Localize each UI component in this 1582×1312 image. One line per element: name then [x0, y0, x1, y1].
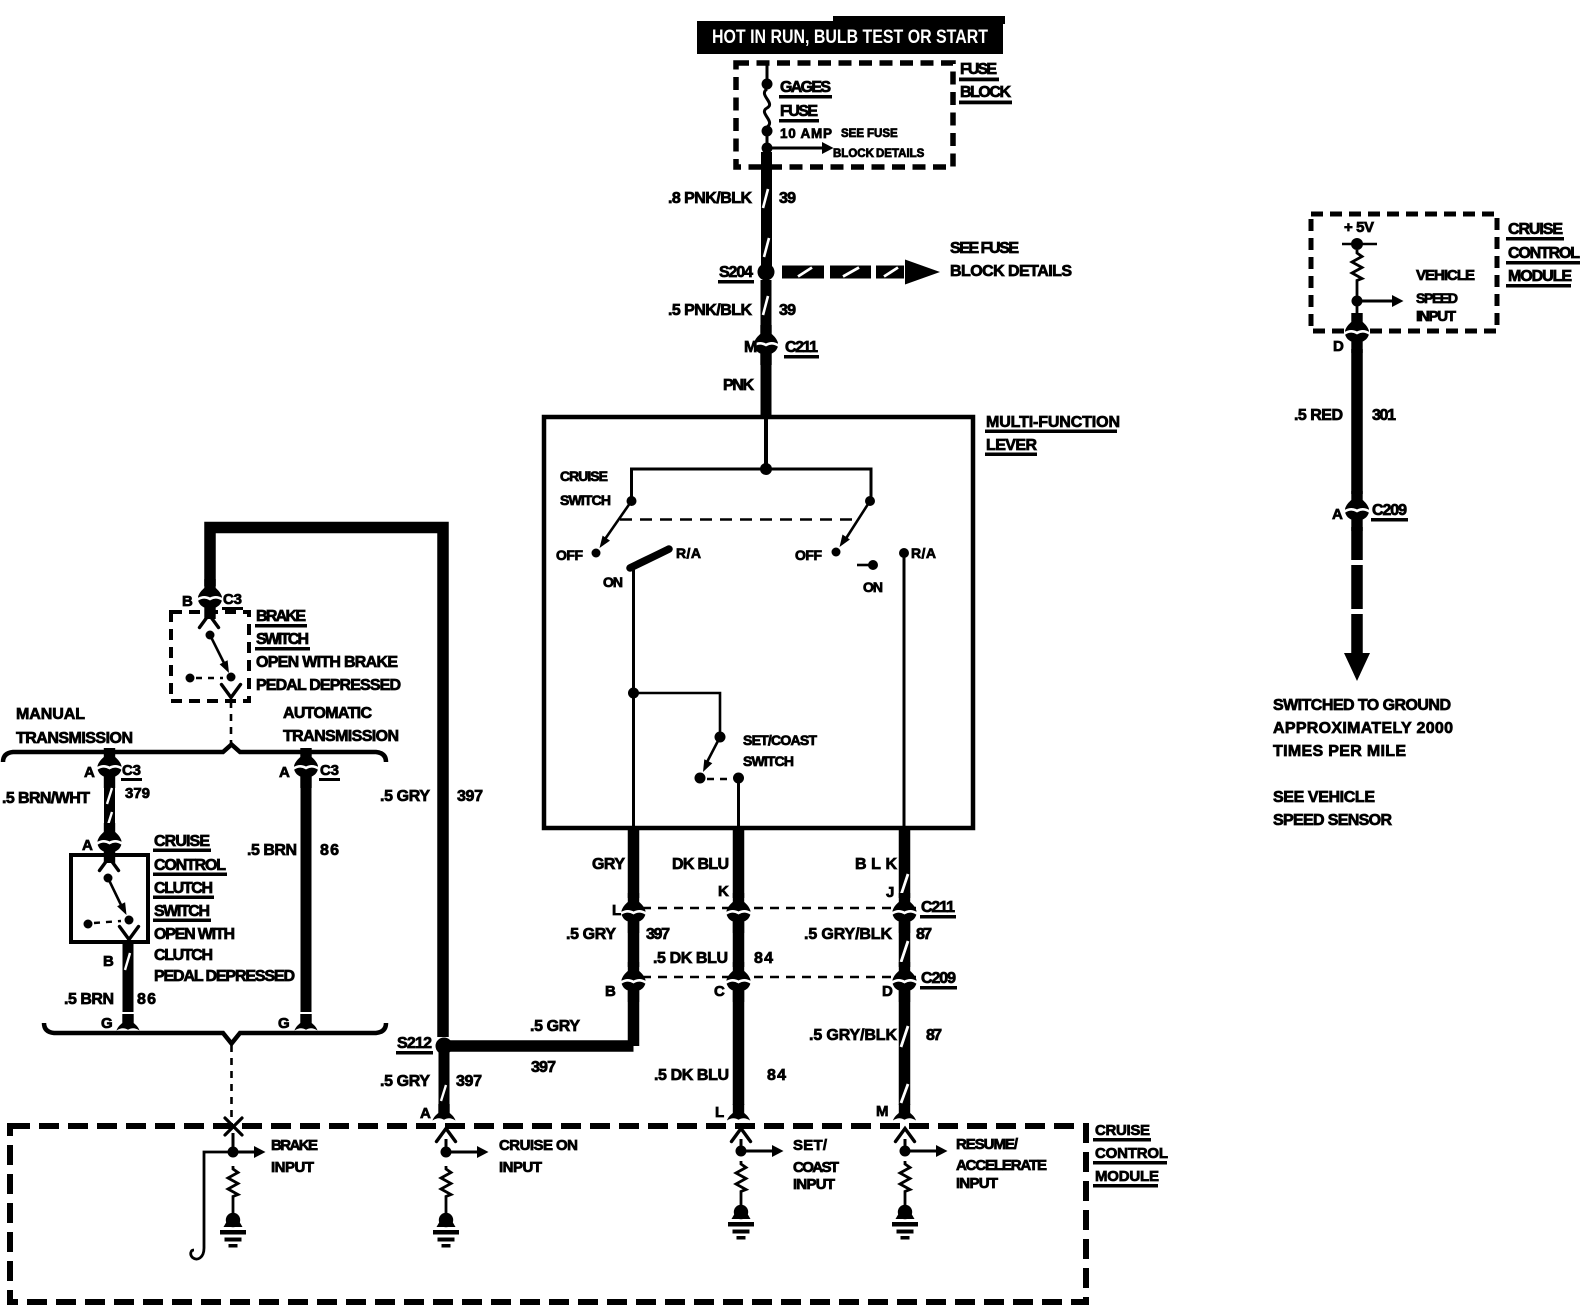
- arrow: vehicle speed input: [1357, 300, 1392, 303]
- wire: feed bus to both switch poles: [632, 469, 872, 497]
- svg-text:INPUT: INPUT: [1416, 308, 1456, 325]
- cruise on input: entry arrow: [437, 1129, 456, 1142]
- node: see-fuse-block tap: [762, 143, 773, 154]
- wire: junction to module edge: [1356, 301, 1359, 318]
- node: right OFF contact: [832, 548, 841, 557]
- label: SET/COAST SWITCH: [743, 732, 817, 769]
- clutch switch blade: [108, 878, 122, 907]
- wire: R/A contact to box bottom (BLK): [903, 553, 906, 827]
- svg-text:.5 BRN: .5 BRN: [247, 842, 297, 859]
- node: left OFF contact: [592, 549, 601, 558]
- entry connector module pin A: [433, 1104, 456, 1121]
- node: vehicle speed input junction: [1352, 296, 1363, 307]
- svg-text:CONTROL: CONTROL: [154, 857, 226, 874]
- svg-text:FUSE: FUSE: [780, 103, 818, 120]
- svg-text:R/A: R/A: [911, 545, 936, 561]
- connector C3 pin A (manual): [97, 748, 122, 788]
- svg-text:39: 39: [779, 190, 796, 207]
- clutch switch: bottom terminal arrow: [120, 927, 139, 940]
- wire: GRY lever to C211-L: [628, 827, 640, 898]
- svg-text:GAGES: GAGES: [780, 79, 831, 96]
- svg-text:PEDAL DEPRESSED: PEDAL DEPRESSED: [154, 968, 295, 985]
- resistor: cruise on: [441, 1166, 451, 1199]
- node: set/coast left contact: [695, 773, 706, 784]
- wire: .5 GRY/BLK 87 C211 to C209: [899, 922, 911, 967]
- svg-text:MANUAL: MANUAL: [16, 706, 85, 723]
- svg-text:MULTI-FUNCTION: MULTI-FUNCTION: [986, 414, 1120, 431]
- svg-text:G: G: [278, 1015, 290, 1032]
- wire: dashed drop brace to module brake input: [230, 1045, 233, 1117]
- label: CRUISE CONTROL CLUTCH SWITCH notes: [153, 833, 295, 985]
- ground: brake input: [220, 1213, 246, 1248]
- wire: left ON contact down: [632, 566, 635, 693]
- label: CRUISE CONTROL MODULE (top right): [1506, 221, 1580, 288]
- svg-text:SPEED: SPEED: [1416, 290, 1458, 306]
- wire: brake input hook branch: [191, 1152, 233, 1259]
- node: right R/A contact: [899, 548, 909, 558]
- svg-text:C: C: [714, 983, 725, 1000]
- connector C3 pin A (automatic): [294, 748, 319, 788]
- brace: transmission split (opens down): [3, 745, 386, 763]
- wire: .5 DK BLU 84 C209-C to module L: [733, 991, 745, 1105]
- svg-text:.5 BRN/WHT: .5 BRN/WHT: [2, 790, 90, 807]
- svg-text:TIMES PER MILE: TIMES PER MILE: [1273, 743, 1406, 760]
- svg-text:INPUT: INPUT: [793, 1176, 835, 1193]
- cruise switch left pole pivot: [627, 496, 637, 506]
- power banner: HOT IN RUN, BULB TEST OR START: [697, 16, 1005, 54]
- wire: fuse to tap: [766, 131, 769, 148]
- svg-text:APPROXIMATELY 2000: APPROXIMATELY 2000: [1273, 720, 1453, 737]
- arrowhead: to speed sensor: [1344, 653, 1370, 681]
- svg-text:FUSE: FUSE: [867, 128, 898, 140]
- svg-text:SET/COAST: SET/COAST: [743, 732, 817, 748]
- node: cruise on junction: [441, 1147, 452, 1158]
- entry connector: automatic G to brace: [295, 1014, 318, 1031]
- brake switch lower contact: [227, 673, 236, 682]
- set/coast input: entry arrow: [732, 1129, 751, 1142]
- svg-text:.5 GRY/BLK: .5 GRY/BLK: [804, 926, 892, 943]
- svg-text:SWITCH: SWITCH: [256, 631, 309, 648]
- wire: .5 BRN 86 clutch switch to G: [123, 942, 134, 1012]
- svg-text:87: 87: [916, 926, 932, 943]
- svg-text:A: A: [1332, 506, 1343, 523]
- node: right ON contact with stub: [857, 564, 869, 567]
- svg-text:CRUISE: CRUISE: [1095, 1122, 1150, 1139]
- wire: .5 RED 301 to C209: [1351, 349, 1363, 494]
- svg-text:CONTROL: CONTROL: [1508, 245, 1580, 262]
- wire: dashed drop brake switch to brace: [230, 701, 233, 746]
- svg-text:CRUISE ON: CRUISE ON: [499, 1137, 578, 1154]
- ground: set/coast: [728, 1205, 754, 1240]
- wire: .5 BRN 86 automatic branch: [301, 780, 312, 1012]
- connector row C209 dashed gang line: [642, 976, 916, 978]
- resistor: speed input pull-up: [1352, 250, 1362, 283]
- svg-text:PNK: PNK: [723, 377, 754, 394]
- svg-text:CRUISE: CRUISE: [560, 468, 608, 484]
- svg-text:SEE FUSE: SEE FUSE: [950, 240, 1019, 257]
- svg-text:C211: C211: [921, 899, 955, 916]
- connector C209 pin B: [621, 962, 646, 1002]
- x termination at brake input entry: [225, 1118, 242, 1135]
- svg-text:SWITCHED TO GROUND: SWITCHED TO GROUND: [1273, 697, 1451, 714]
- svg-text:BRAKE: BRAKE: [256, 608, 306, 625]
- connector C211 pin J: [892, 893, 917, 933]
- svg-text:C211: C211: [785, 339, 818, 356]
- svg-text:C209: C209: [921, 970, 956, 987]
- cruise switch right pole pivot: [865, 496, 875, 506]
- wire: PNK C211 to multi-function lever: [761, 362, 772, 419]
- resistor: set/coast: [736, 1161, 746, 1194]
- svg-text:A: A: [84, 764, 95, 781]
- svg-text:CONTROL: CONTROL: [1095, 1145, 1168, 1162]
- svg-text:DETAILS: DETAILS: [876, 148, 925, 160]
- thick arc blade ON to R/A: [630, 549, 669, 568]
- svg-text:.5 GRY: .5 GRY: [380, 1073, 430, 1090]
- svg-text:C3: C3: [223, 591, 242, 608]
- svg-text:301: 301: [1372, 407, 1396, 424]
- svg-text:AUTOMATIC: AUTOMATIC: [283, 705, 372, 722]
- connector C209 pin A: [1345, 491, 1370, 531]
- svg-text:SPEED SENSOR: SPEED SENSOR: [1273, 812, 1392, 829]
- splice S204: [758, 264, 775, 281]
- svg-text:A: A: [279, 764, 290, 781]
- cruise control module dashed box (top right): [1311, 214, 1497, 331]
- svg-text:OFF: OFF: [795, 547, 822, 563]
- svg-text:SWITCH: SWITCH: [560, 492, 611, 508]
- wire: ON contact to lever box bottom (GRY): [632, 693, 635, 827]
- brake switch blade: [210, 635, 225, 665]
- connector C211 pin M: [754, 325, 779, 365]
- svg-text:MODULE: MODULE: [1508, 268, 1572, 285]
- svg-text:TRANSMISSION: TRANSMISSION: [16, 730, 133, 747]
- svg-text:INPUT: INPUT: [956, 1175, 998, 1192]
- node: cruise switch feed junction: [760, 463, 772, 475]
- svg-text:D: D: [1333, 338, 1344, 355]
- svg-text:397: 397: [457, 788, 483, 805]
- node: brake input junction: [228, 1147, 239, 1158]
- svg-text:.5 GRY: .5 GRY: [380, 788, 430, 805]
- svg-text:INPUT: INPUT: [271, 1159, 314, 1176]
- label: switched to ground note: [1273, 697, 1453, 829]
- svg-text:379: 379: [125, 785, 150, 802]
- clutch switch open contact: [84, 920, 93, 929]
- svg-text:OPEN WITH BRAKE: OPEN WITH BRAKE: [256, 654, 398, 671]
- node: set/coast pivot: [715, 732, 726, 743]
- svg-text:J: J: [886, 884, 894, 901]
- svg-text:M: M: [744, 339, 757, 356]
- svg-text:.5 GRY/BLK: .5 GRY/BLK: [809, 1027, 897, 1044]
- svg-text:SWITCH: SWITCH: [743, 753, 794, 769]
- arrow: cruise on input: [446, 1151, 477, 1154]
- svg-text:BLOCK: BLOCK: [960, 84, 1011, 101]
- arrow: set/coast input: [741, 1150, 772, 1153]
- svg-text:M: M: [876, 1103, 889, 1120]
- svg-text:C209: C209: [1372, 502, 1407, 519]
- svg-text:LEVER: LEVER: [986, 437, 1037, 454]
- svg-text:86: 86: [137, 991, 156, 1008]
- label: GAGES FUSE: [779, 79, 832, 123]
- svg-text:84: 84: [767, 1067, 786, 1084]
- svg-text:.5 GRY: .5 GRY: [530, 1018, 580, 1035]
- wire: pnk feed inside lever: [764, 419, 768, 469]
- brace: ground join (opens up): [44, 1023, 386, 1044]
- svg-text:SWITCH: SWITCH: [154, 903, 210, 920]
- wire: .5 BRN/WHT 379 to clutch switch: [104, 780, 115, 830]
- wire: set/coast contact to box bottom (DK BLU): [737, 778, 740, 827]
- fuse block dashed box: [736, 63, 953, 167]
- connector row C211 dashed gang line: [642, 907, 916, 909]
- svg-text:10 AMP: 10 AMP: [780, 126, 832, 141]
- svg-text:ON: ON: [863, 579, 883, 595]
- clutch switch pivot: [104, 874, 113, 883]
- connector C209 pin D: [892, 962, 917, 1002]
- arrow: see fuse block details (inside fuse box): [767, 147, 822, 150]
- svg-text:BLOCK: BLOCK: [833, 148, 875, 160]
- svg-text:K: K: [718, 883, 729, 900]
- brake input: wire to junction: [232, 1133, 235, 1152]
- svg-text:39: 39: [779, 302, 796, 319]
- wire: .5 GRY/BLK 87 C209-D to module M: [899, 991, 911, 1105]
- svg-text:.5 DK BLU: .5 DK BLU: [653, 950, 728, 967]
- label: 10 AMP SEE FUSE BLOCK DETAILS: [780, 126, 925, 160]
- dashed link to right contact: [707, 778, 731, 781]
- resistor: resume/accelerate: [900, 1161, 910, 1194]
- connector C211 pin L: [621, 893, 646, 933]
- label: MANUAL TRANSMISSION: [16, 706, 133, 747]
- svg-text:.5 BRN: .5 BRN: [64, 991, 114, 1008]
- cruise control module dashed box (bottom): [10, 1126, 1086, 1302]
- svg-text:RESUME/: RESUME/: [956, 1136, 1019, 1153]
- wire: .8 PNK/BLK 39 fuse to S204: [761, 152, 772, 266]
- node: set/coast right contact: [733, 773, 744, 784]
- svg-text:DK BLU: DK BLU: [672, 856, 729, 873]
- wire: .5 GRY 397 C211 to C209: [628, 922, 640, 967]
- svg-text:C3: C3: [122, 762, 141, 779]
- svg-text:C3: C3: [320, 762, 339, 779]
- dashed arrow: S204 to fuse block details: [782, 260, 940, 285]
- resistor: brake input pull-up: [228, 1166, 238, 1199]
- svg-text:ACCELERATE: ACCELERATE: [956, 1157, 1047, 1174]
- wire: .5 GRY C209-B down to S212 bend: [628, 991, 640, 1046]
- label: .8 PNK/BLK 39: [668, 190, 796, 207]
- connector C209 pin C: [726, 962, 751, 1002]
- left blade to OFF with arrowhead: [603, 501, 632, 542]
- svg-text:.5 PNK/BLK: .5 PNK/BLK: [668, 302, 752, 319]
- ganged linkage dashed line: [620, 518, 858, 521]
- svg-text:CRUISE: CRUISE: [1508, 221, 1563, 238]
- ground: resume/accelerate: [892, 1205, 918, 1240]
- label: .5 GRY 397 (top of long gray run): [380, 788, 483, 805]
- svg-text:SEE VEHICLE: SEE VEHICLE: [1273, 789, 1375, 806]
- wire: tap to set/coast switch: [634, 693, 721, 737]
- fuse block label: [959, 61, 1012, 104]
- wire: .5 GRY 397 S212 horizontal run to C209 leg: [449, 1040, 634, 1052]
- svg-text:G: G: [101, 1015, 113, 1032]
- node: resume junction: [900, 1146, 911, 1157]
- svg-text:B: B: [605, 983, 616, 1000]
- arrow: resume/accelerate input: [905, 1150, 936, 1153]
- svg-text:.5 GRY: .5 GRY: [566, 926, 616, 943]
- svg-text:397: 397: [531, 1059, 556, 1076]
- svg-text:VEHICLE: VEHICLE: [1416, 267, 1475, 284]
- clutch switch lower contact: [125, 916, 134, 925]
- resume/accelerate input: entry arrow: [896, 1129, 915, 1142]
- wire: feed into gages fuse: [766, 63, 769, 83]
- wire: .5 GRY 397 S212 down to module A: [439, 1052, 450, 1105]
- wire: .5 DK BLU 84 C211 to C209: [733, 922, 745, 967]
- svg-text:86: 86: [320, 842, 339, 859]
- label: CRUISE CONTROL MODULE (bottom right): [1093, 1122, 1168, 1188]
- splice S212: [436, 1038, 453, 1055]
- svg-text:84: 84: [754, 950, 773, 967]
- label: BRAKE SWITCH, notes: [255, 608, 401, 745]
- svg-text:COAST: COAST: [793, 1159, 839, 1176]
- svg-text:BRAKE: BRAKE: [271, 1137, 318, 1154]
- connector: module pin D: [1345, 313, 1370, 353]
- connector C211 pin K: [726, 893, 751, 933]
- label: C209: [920, 970, 957, 990]
- svg-text:INPUT: INPUT: [499, 1159, 542, 1176]
- svg-text:R/A: R/A: [676, 545, 701, 561]
- brake switch open contact: [186, 674, 195, 683]
- svg-text:.5 DK BLU: .5 DK BLU: [654, 1067, 729, 1084]
- svg-text:L: L: [612, 902, 621, 919]
- wire: DK BLU lever to C211-K: [733, 827, 745, 898]
- arrow: brake input: [233, 1151, 254, 1154]
- label: SEE FUSE BLOCK DETAILS: [950, 240, 1072, 280]
- wire: BLK lever to C211-J: [899, 827, 911, 898]
- node: +5V rail: [1342, 243, 1377, 245]
- connector: clutch switch pin A: [97, 823, 122, 863]
- svg-text:B: B: [103, 953, 114, 970]
- entry connector: manual G to brace: [117, 1014, 140, 1031]
- svg-text:A: A: [82, 837, 93, 854]
- svg-text:S212: S212: [397, 1035, 432, 1052]
- svg-text:D: D: [882, 983, 893, 1000]
- gages fuse element: [764, 89, 769, 127]
- wire: brake switch feed, top-left thick run: [210, 528, 443, 1038]
- label: CRUISE SWITCH: [560, 468, 611, 508]
- svg-text:CLUTCH: CLUTCH: [154, 947, 213, 964]
- svg-text:MODULE: MODULE: [1095, 1168, 1159, 1185]
- multi-function lever box: [544, 417, 973, 828]
- svg-text:+ 5V: + 5V: [1344, 219, 1374, 236]
- svg-text:OFF: OFF: [556, 547, 583, 563]
- svg-text:397: 397: [456, 1073, 482, 1090]
- brake switch pivot: [206, 631, 215, 640]
- svg-text:CRUISE: CRUISE: [154, 833, 210, 850]
- label: C211: [920, 899, 956, 919]
- connector C3 pin B: [198, 579, 223, 619]
- entry connector module pin L: [727, 1104, 750, 1121]
- clutch switch: top terminal arrow: [100, 858, 119, 871]
- svg-text:OPEN WITH: OPEN WITH: [154, 926, 235, 943]
- node: set/coast junction: [736, 1146, 747, 1157]
- svg-text:HOT IN RUN, BULB TEST OR START: HOT IN RUN, BULB TEST OR START: [712, 27, 988, 48]
- brake switch dashed box: [171, 612, 249, 701]
- cruise control clutch switch box: [71, 855, 148, 942]
- brake switch: top terminal arrow: [200, 615, 219, 628]
- svg-text:BLOCK DETAILS: BLOCK DETAILS: [950, 263, 1072, 280]
- entry connector module pin M: [893, 1104, 916, 1121]
- brake switch: bottom terminal arrow: [222, 685, 241, 698]
- label: MULTI-FUNCTION LEVER: [985, 414, 1120, 456]
- svg-text:PEDAL DEPRESSED: PEDAL DEPRESSED: [256, 677, 401, 694]
- svg-text:.8 PNK/BLK: .8 PNK/BLK: [668, 190, 752, 207]
- svg-text:CLUTCH: CLUTCH: [154, 880, 213, 897]
- svg-text:S204: S204: [719, 264, 753, 281]
- svg-text:BLK: BLK: [855, 856, 897, 873]
- svg-text:.5 RED: .5 RED: [1294, 407, 1343, 424]
- wire: .5 PNK/BLK 39 S204 to C211: [761, 280, 772, 328]
- ground: cruise on: [433, 1213, 459, 1248]
- set/coast blade with arrowhead: [706, 737, 720, 764]
- svg-text:FUSE: FUSE: [960, 61, 997, 78]
- svg-text:SEE: SEE: [841, 128, 864, 140]
- svg-text:SET/: SET/: [793, 1137, 828, 1154]
- svg-text:A: A: [420, 1105, 431, 1122]
- svg-text:ON: ON: [603, 574, 623, 590]
- node: fuse top terminal: [762, 79, 773, 90]
- right blade to OFF with arrowhead: [845, 501, 870, 540]
- svg-text:TRANSMISSION: TRANSMISSION: [283, 728, 399, 745]
- svg-text:B: B: [182, 593, 193, 610]
- node: fuse bottom terminal: [762, 126, 773, 137]
- svg-text:GRY: GRY: [592, 856, 625, 873]
- svg-text:L: L: [715, 1104, 724, 1121]
- wire: dashed run to vehicle speed sensor: [1351, 527, 1363, 560]
- svg-text:397: 397: [646, 926, 670, 943]
- node: set/coast tap junction: [628, 688, 639, 699]
- svg-text:87: 87: [926, 1027, 942, 1044]
